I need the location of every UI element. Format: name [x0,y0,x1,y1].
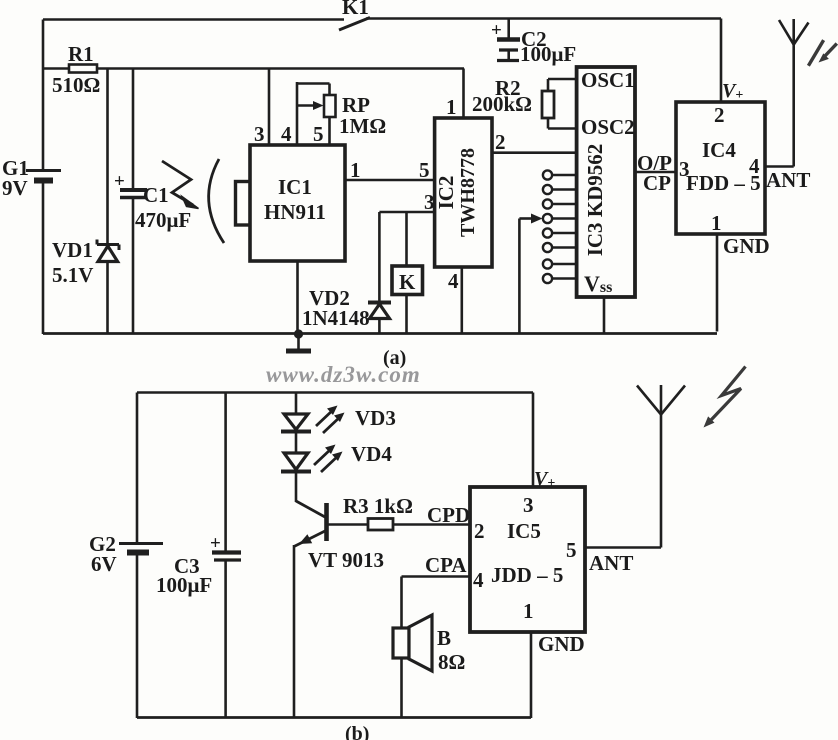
IC2 pin 2 wire [492,130,577,154]
IC3 open pin 2 [543,185,577,194]
wire top rail right [366,17,721,20]
svg-text:4: 4 [749,154,760,178]
wire C1 drop [132,69,135,191]
antenna B [637,385,685,548]
svg-text:4: 4 [473,568,484,592]
IC3 open pin 6 [543,243,577,252]
capacitor C1 [114,171,191,232]
IC2 pin 1 [446,69,464,120]
svg-text:IC4: IC4 [702,138,736,162]
svg-text:R1: R1 [68,42,94,66]
svg-text:3: 3 [424,190,435,214]
svg-text:OSC2: OSC2 [581,115,635,139]
wire C1 to rail [132,198,135,335]
svg-text:(b): (b) [345,723,369,740]
svg-text:B: B [437,626,451,650]
svg-text:IC3 KD9562: IC3 KD9562 [583,144,607,257]
svg-text:TWH8778: TWH8778 [457,148,479,237]
op-amp IC1 box [250,145,345,261]
wire IC4 ANT [765,167,810,193]
IC2 pin 4 wire [448,267,462,334]
IC3 open pin 7 [543,259,577,268]
IC3 open pin 8 [543,274,577,283]
svg-text:V+: V+ [722,80,743,103]
resistor R1 [52,42,100,97]
IC5 box [470,487,585,632]
LED VD4 [281,442,392,472]
svg-text:1MΩ: 1MΩ [339,114,386,138]
svg-text:CPA: CPA [425,553,467,577]
resistor R2 [472,76,577,129]
svg-text:CP: CP [643,171,671,195]
svg-text:1: 1 [711,211,722,235]
speaker B [393,615,465,674]
svg-text:1: 1 [446,95,457,119]
svg-text:4: 4 [448,269,459,293]
wire left vertical upper [42,20,45,171]
capacitor C2 [491,19,576,67]
svg-text:3: 3 [523,493,534,517]
resistor R3 [328,494,470,530]
svg-text:CPD: CPD [427,503,470,527]
svg-text:9V: 9V [2,176,28,200]
ground [286,334,311,351]
svg-text:VT 9013: VT 9013 [308,548,384,572]
svg-text:HN911: HN911 [264,200,326,224]
wire left vertical b upper [136,393,139,544]
light arrow [162,161,199,209]
svg-text:K1: K1 [342,0,369,19]
svg-text:IC2: IC2 [434,176,458,210]
wire IC3 Vss [603,297,606,334]
svg-text:2: 2 [495,130,506,154]
IC3 open pin 1 [543,170,577,179]
svg-text:2: 2 [474,519,485,543]
svg-text:+: + [114,171,125,192]
wire top rail left [43,18,344,21]
wire bottom rail a [43,332,717,335]
wire VD3-VD4 [295,432,298,454]
svg-text:+: + [491,20,502,41]
svg-text:4: 4 [281,122,292,146]
wire IC5 V+ [532,393,535,488]
IC1 pin 5 [313,117,330,146]
LED VD3 [281,406,396,434]
svg-text:JDD – 5: JDD – 5 [491,563,563,587]
zener diode VD1 [52,238,119,287]
svg-text:5: 5 [313,122,324,146]
svg-text:3: 3 [679,157,690,181]
capacitor C3 [156,393,241,719]
lightning bolt b [704,367,746,428]
svg-text:1: 1 [523,599,534,623]
svg-text:IC5: IC5 [507,519,541,543]
junction dot [294,329,303,338]
wire IC4 V+ [720,19,723,103]
IC3 O/P CP pin wire [635,151,676,195]
wire IC4 GND [717,234,770,332]
relay K [392,212,423,334]
wire VD4 to collector [295,472,298,503]
IC4 box [676,102,765,235]
wire left vertical b lower [136,555,139,718]
wire rail2 left [43,67,70,70]
svg-text:100μF: 100μF [520,42,576,66]
svg-text:IC1: IC1 [278,175,312,199]
svg-text:VD4: VD4 [351,442,392,466]
selector arrow wire [519,214,542,335]
svg-text:+: + [210,533,221,554]
wire CPA [402,553,471,628]
wire top rail b [137,391,533,394]
wire rail2 right [96,67,464,70]
svg-text:VD1: VD1 [52,238,93,262]
svg-text:3: 3 [254,122,265,146]
IC3 open pin 5 [543,228,577,237]
lightning bolt a [808,40,836,66]
IC1 pin 4 [281,82,297,146]
wire speaker down [400,658,403,718]
svg-text:www.dz3w.com: www.dz3w.com [266,362,421,387]
potentiometer RP [297,84,386,139]
wire IC1 pin1 to IC2 pin5 [345,158,435,182]
wire IC5 ANT [585,548,661,576]
svg-text:510Ω: 510Ω [52,73,100,97]
svg-text:C1: C1 [143,183,169,207]
wire VD1 drop [106,69,109,245]
IC3 open pin 4 [543,214,577,223]
svg-text:5.1V: 5.1V [52,263,93,287]
svg-text:8Ω: 8Ω [438,650,465,674]
wire bottom rail b [137,716,531,719]
antenna A [779,19,809,167]
svg-text:OSC1: OSC1 [581,68,635,92]
wire VD1 to rail [106,261,109,334]
wire left vertical lower [42,183,45,334]
svg-text:100μF: 100μF [156,573,212,597]
transistor VT 9013 [294,501,384,572]
wire IC1 bottom [296,261,299,334]
svg-text:V+: V+ [534,468,555,491]
IC2 pin 3 wire [379,190,434,214]
IC1 pin 3 [254,69,269,147]
wire emitter down [293,545,296,718]
IC3 open pin 3 [543,199,577,208]
IC3 box [577,67,635,297]
svg-text:R3 1kΩ: R3 1kΩ [343,494,413,518]
svg-text:1: 1 [350,158,361,182]
svg-text:2: 2 [714,103,725,127]
svg-text:K: K [399,270,416,294]
wire IC5 GND [531,632,585,718]
IC1 sensor notch [236,182,251,226]
diode VD2 [302,212,391,334]
svg-text:1N4148: 1N4148 [302,306,370,330]
lens arc [209,159,224,243]
svg-text:ANT: ANT [766,168,810,192]
battery G1 [2,156,61,200]
switch K1 [339,0,370,30]
svg-text:5: 5 [419,158,430,182]
IC2 box [434,118,492,267]
svg-text:GND: GND [723,234,770,258]
svg-text:VD3: VD3 [355,406,396,430]
wire LED drop [295,393,298,415]
svg-text:6V: 6V [91,552,117,576]
svg-text:GND: GND [538,632,585,656]
svg-text:200kΩ: 200kΩ [472,92,532,116]
battery G2 [89,532,163,576]
svg-text:5: 5 [566,538,577,562]
svg-text:ANT: ANT [589,551,633,575]
svg-text:470μF: 470μF [135,208,191,232]
